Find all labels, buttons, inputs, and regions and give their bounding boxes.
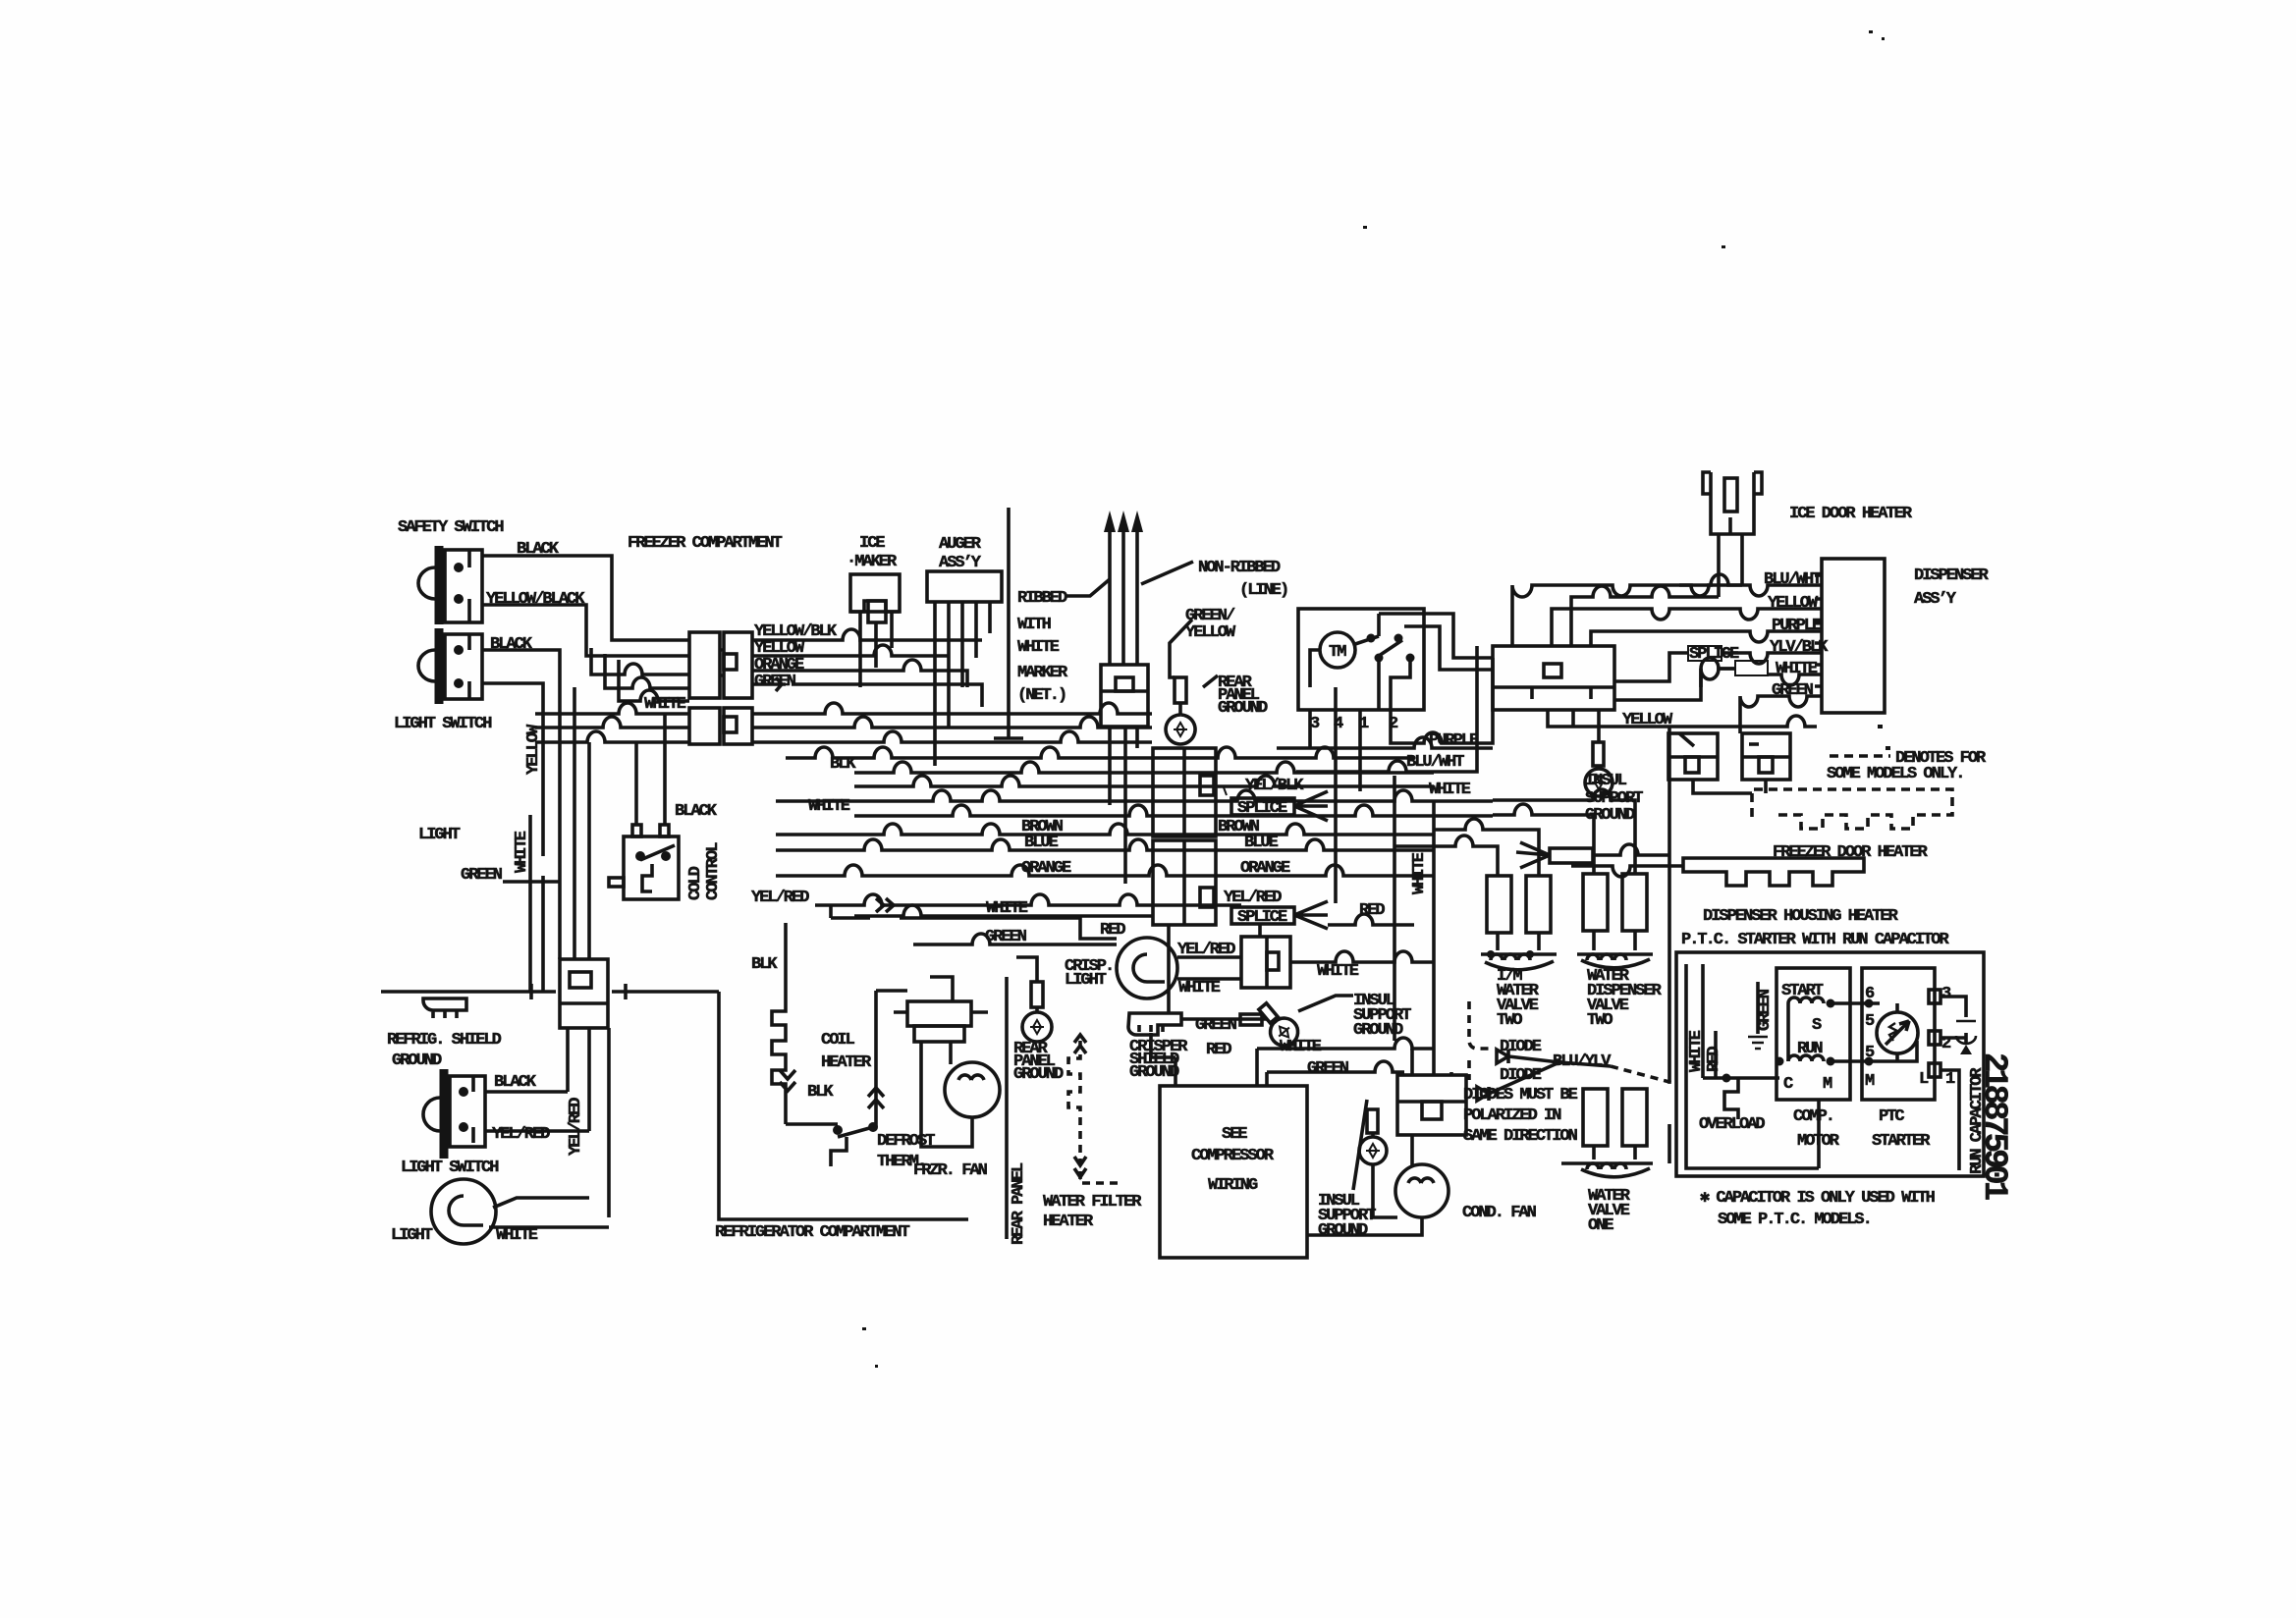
svg-text:BLACK: BLACK <box>494 1073 537 1092</box>
wire <box>1622 874 1647 931</box>
svg-text:WIRING: WIRING <box>1208 1176 1258 1195</box>
refrigerator compartment boundary <box>719 992 968 1219</box>
wire <box>1393 776 1396 1041</box>
wire <box>459 1087 468 1097</box>
svg-text:SPLICE: SPLICE <box>1237 799 1287 818</box>
svg-text:TM: TM <box>1329 643 1346 662</box>
refrig shield ground connector <box>423 998 466 1018</box>
wire RED y956 <box>1080 924 1117 939</box>
text labels left <box>387 518 910 1245</box>
svg-text:DIODE: DIODE <box>1500 1066 1542 1085</box>
wire <box>640 845 675 860</box>
wire RED compressor <box>1151 1033 1175 1086</box>
wire <box>831 1137 847 1166</box>
svg-text:DISPENSER HOUSING HEATER: DISPENSER HOUSING HEATER <box>1703 907 1899 926</box>
wire <box>1788 1055 1824 1061</box>
wire <box>1497 1050 1508 1063</box>
wire <box>874 991 878 1127</box>
wire <box>454 645 464 655</box>
svg-text:WATER FILTER: WATER FILTER <box>1043 1193 1142 1212</box>
wire <box>1493 685 1614 689</box>
wire <box>1577 1161 1653 1165</box>
svg-text:GREEN: GREEN <box>1772 681 1814 700</box>
wire RED right y942 <box>1328 914 1414 925</box>
wire <box>1964 1033 1968 1043</box>
svg-text:COIL: COIL <box>821 1031 855 1050</box>
svg-text:SOME MODELS ONLY.: SOME MODELS ONLY. <box>1827 765 1963 783</box>
wire WHITE crisp <box>1177 977 1241 981</box>
wire <box>1375 654 1384 663</box>
wire WHITE right of crisp connector <box>1290 951 1434 962</box>
wire <box>949 1042 953 1064</box>
freezer connector upper <box>689 632 752 698</box>
svg-text:COMPRESSOR: COMPRESSOR <box>1191 1147 1275 1165</box>
wire <box>786 1124 873 1137</box>
wire WHITE bus y727 <box>535 703 1152 714</box>
wire <box>1594 931 1635 950</box>
svg-text:WHITE: WHITE <box>1776 660 1818 678</box>
wire <box>1373 1164 1397 1217</box>
wire <box>1485 961 1554 970</box>
wire <box>1487 950 1495 958</box>
wire <box>1353 1100 1367 1190</box>
svg-text:P.T.C. STARTER WITH RUN CAPACI: P.T.C. STARTER WITH RUN CAPACITOR <box>1681 931 1949 949</box>
auger assy <box>927 571 1002 602</box>
wire <box>1728 517 1732 534</box>
svg-text:YEL/RED: YEL/RED <box>567 1098 585 1156</box>
wire <box>1336 660 1379 710</box>
svg-text:TWO: TWO <box>1587 1011 1613 1030</box>
dashes denotes <box>1830 754 1890 758</box>
wire <box>1726 1076 1779 1080</box>
wire <box>423 1098 440 1131</box>
water filter heater (dashed) <box>1068 1041 1080 1163</box>
wire <box>612 990 719 994</box>
wire <box>1395 1164 1449 1217</box>
svg-text:BLACK: BLACK <box>675 802 718 821</box>
wire <box>445 634 482 699</box>
wire <box>1241 937 1290 988</box>
wire <box>1587 954 1626 960</box>
wire <box>1371 1133 1375 1137</box>
timer pin wires <box>1310 658 1493 903</box>
svg-text:WHITE: WHITE <box>808 797 850 816</box>
wire <box>607 1028 611 1217</box>
wire <box>1487 876 1511 933</box>
wire <box>1298 609 1424 710</box>
svg-text:GROUND: GROUND <box>1013 1065 1064 1084</box>
wire BLACK from light switch <box>482 650 560 720</box>
wire <box>1597 710 1601 742</box>
wire <box>1491 954 1530 960</box>
rear panel ground (lower) <box>1016 957 1052 1042</box>
svg-text:WHITE: WHITE <box>986 899 1028 918</box>
wire <box>1412 1049 1451 1075</box>
svg-text:HEATER: HEATER <box>821 1053 872 1072</box>
svg-text:BLACK: BLACK <box>517 540 560 559</box>
wire <box>945 1062 1000 1117</box>
wire green left <box>503 720 560 959</box>
wire <box>1941 997 1966 1017</box>
svg-text:COLD: COLD <box>686 866 705 900</box>
wire bus y787 <box>854 762 1434 773</box>
staircase wires into connector <box>591 648 689 674</box>
group <box>1245 505 2012 1229</box>
svg-text:GREEN: GREEN <box>1195 1016 1237 1035</box>
wire <box>724 654 737 670</box>
wire <box>1550 848 1593 863</box>
wire <box>720 650 724 675</box>
wire <box>1587 1163 1626 1169</box>
svg-text:RIBBED: RIBBED <box>1017 589 1067 608</box>
wire <box>1128 1013 1181 1035</box>
wire <box>1749 742 1759 746</box>
svg-text:DIODES MUST BE: DIODES MUST BE <box>1463 1086 1578 1105</box>
wire <box>914 1026 964 1042</box>
wire YELLOW <box>752 645 948 656</box>
wire <box>529 984 533 999</box>
svg-text:REFRIGERATOR COMPARTMENT: REFRIGERATOR COMPARTMENT <box>715 1223 910 1242</box>
wire <box>1703 1076 1726 1080</box>
water dispenser valve two <box>1577 874 1653 968</box>
wire <box>1583 874 1608 931</box>
wire <box>1877 1012 1918 1053</box>
wire <box>1526 950 1534 958</box>
wire <box>1929 1031 1941 1045</box>
wire white vertical left <box>528 815 532 992</box>
wire <box>1363 226 1367 229</box>
wire <box>1080 1171 1120 1183</box>
wire <box>1788 998 1824 1003</box>
wire bus y801 <box>854 776 1434 786</box>
wire <box>1178 703 1182 715</box>
wire <box>1167 925 1171 1013</box>
plug prongs <box>1104 511 1143 665</box>
wire <box>454 678 464 688</box>
freezer door heater comb <box>1693 780 1952 829</box>
svg-text:WHITE: WHITE <box>1687 1030 1706 1072</box>
wire <box>635 851 645 861</box>
crisper shield ground bracket <box>1128 996 1353 1052</box>
wire <box>624 836 679 899</box>
wire <box>1862 968 1935 1100</box>
wire <box>1068 1041 1080 1163</box>
wire <box>1469 1001 1493 1049</box>
svg-text:ASS’Y: ASS’Y <box>939 554 982 572</box>
wire <box>1182 748 1186 925</box>
svg-text:AUGER: AUGER <box>939 535 982 554</box>
wire <box>1714 1031 1718 1078</box>
PTC outer box <box>1676 952 1984 1176</box>
wire <box>1397 1075 1466 1135</box>
wire <box>921 1042 972 1147</box>
ptc starter box <box>1862 968 1941 1100</box>
svg-text:ICE: ICE <box>859 534 885 553</box>
wire <box>1614 658 1735 700</box>
svg-text:ORANGE: ORANGE <box>1240 859 1290 878</box>
wire <box>1031 982 1043 1007</box>
svg-text:WHITE: WHITE <box>513 831 531 873</box>
wire <box>1035 1007 1039 1013</box>
wire <box>1074 1035 1086 1053</box>
wire <box>1777 968 1850 1100</box>
wire <box>1688 646 1722 661</box>
wire <box>1166 715 1195 744</box>
I/M water valve <box>1481 876 1557 970</box>
svg-text:YEL/RED: YEL/RED <box>751 889 809 907</box>
wire <box>1815 575 1822 686</box>
wire <box>1889 1023 1897 1041</box>
wire <box>1679 733 1694 746</box>
coil heater <box>772 923 795 1124</box>
wire WHITE over compressor <box>1257 1038 1434 1049</box>
svg-text:PURPLE: PURPLE <box>1772 617 1822 635</box>
wire WHITE from light <box>493 1198 589 1208</box>
wire <box>435 628 444 704</box>
wire <box>1592 776 1606 789</box>
wire <box>1748 1037 1768 1049</box>
wire <box>868 601 886 622</box>
wire <box>1776 1057 1784 1066</box>
wire <box>1594 1146 1635 1160</box>
wire <box>1255 1049 1259 1086</box>
safety switch <box>418 546 482 624</box>
wires ice door heater down <box>1719 562 1742 597</box>
svg-text:ORANGE: ORANGE <box>1021 859 1071 878</box>
wire <box>605 654 689 688</box>
svg-text:LIGHT: LIGHT <box>418 826 461 844</box>
wire GREEN with arrow <box>752 677 786 691</box>
capacitor <box>1941 997 1976 1054</box>
wire <box>1742 733 1790 780</box>
wire bus y741 <box>535 717 1152 728</box>
tall line (marker) <box>994 508 1023 738</box>
wire <box>560 1001 608 1005</box>
wire <box>471 1076 475 1143</box>
svg-text:FRZR. FAN: FRZR. FAN <box>913 1161 988 1180</box>
svg-text:✱ CAPACITOR IS ONLY USED WITH: ✱ CAPACITOR IS ONLY USED WITH <box>1700 1189 1936 1208</box>
svg-text:YELLOW: YELLOW <box>1185 623 1236 642</box>
wire <box>467 550 471 622</box>
wire PURPLE dispenser <box>1591 631 1822 646</box>
svg-text:FREEZER COMPARTMENT: FREEZER COMPARTMENT <box>628 534 783 553</box>
ice maker wires down <box>860 622 892 687</box>
auger wires down <box>935 602 990 766</box>
wire <box>1467 1060 1471 1080</box>
wire <box>1614 653 1688 681</box>
wire <box>1307 1217 1422 1235</box>
wire <box>1258 924 1262 937</box>
wire <box>1121 530 1125 571</box>
wire <box>1394 1039 1397 1043</box>
wire <box>1404 626 1493 670</box>
wire <box>1742 755 1790 759</box>
wire <box>1622 1089 1647 1146</box>
wire <box>1493 646 1614 710</box>
wire YELLOW from light switch down <box>482 683 543 992</box>
dispenser assy box <box>1815 559 1885 713</box>
non-ribbed pointer <box>1141 562 1193 584</box>
wire <box>1882 37 1885 40</box>
wire <box>780 1070 795 1091</box>
wire <box>868 1088 884 1108</box>
wire <box>1200 888 1214 907</box>
wire YEL/RED crisp <box>1177 955 1241 959</box>
wire <box>587 742 591 959</box>
svg-text:BLU/WHT: BLU/WHT <box>1764 570 1822 589</box>
wire <box>1827 999 1835 1008</box>
big connector right <box>1493 646 1614 710</box>
wire <box>1735 661 1768 675</box>
wire <box>1294 791 1328 821</box>
svg-text:ONE: ONE <box>1588 1216 1613 1235</box>
wires junction right top <box>1571 586 1719 646</box>
splice upper <box>1224 787 1328 821</box>
wires below connector <box>566 1028 570 1092</box>
refrig shield ground line <box>381 990 556 994</box>
wire <box>1711 472 1754 534</box>
wire <box>1117 938 1177 998</box>
rear panel vertical line <box>1005 977 1009 1239</box>
wire <box>1366 1144 1380 1158</box>
svg-text:YEL/RED: YEL/RED <box>1177 941 1235 959</box>
svg-text:BLUE: BLUE <box>1024 834 1059 852</box>
svg-text:ICE DOOR HEATER: ICE DOOR HEATER <box>1789 505 1913 523</box>
svg-text:LIGHT: LIGHT <box>391 1226 433 1245</box>
wire from cold control pin2 <box>663 714 667 825</box>
wire BLACK from safety switch <box>482 556 689 640</box>
wire <box>431 1179 496 1244</box>
wire <box>1016 957 1037 982</box>
wire BLU/WHT dispenser <box>1512 585 1822 646</box>
wire <box>624 984 628 999</box>
svg-text:LIGHT SWITCH: LIGHT SWITCH <box>401 1159 499 1177</box>
wire <box>1153 840 1216 925</box>
wire <box>1886 746 1890 750</box>
svg-text:GROUND: GROUND <box>1129 1063 1179 1082</box>
svg-text:POLARIZED IN: POLARIZED IN <box>1463 1106 1561 1125</box>
svg-text:GREEN: GREEN <box>985 928 1027 946</box>
svg-text:COMP.: COMP. <box>1793 1107 1833 1126</box>
svg-text:WHITE: WHITE <box>1017 638 1060 657</box>
wire <box>1611 1066 1669 1089</box>
wire <box>1865 999 1874 1008</box>
wire <box>1929 1063 1941 1077</box>
wire <box>1693 780 1766 793</box>
wire <box>907 1001 971 1026</box>
wire <box>1880 1003 1917 1061</box>
group <box>862 30 1890 1368</box>
wires above valves <box>1394 819 1539 876</box>
wire <box>1203 675 1218 687</box>
wire <box>1200 776 1214 795</box>
svg-text:RED: RED <box>1705 1047 1723 1072</box>
wire <box>445 550 482 622</box>
wire <box>1481 952 1557 956</box>
svg-text:WHITE: WHITE <box>1410 852 1429 894</box>
vertical wires to lower connector <box>573 687 576 959</box>
compressor box <box>1160 1086 1307 1258</box>
svg-text:GREEN: GREEN <box>1307 1059 1349 1078</box>
wire <box>1865 1057 1874 1066</box>
wire <box>1298 996 1353 1011</box>
PTC inner left wires <box>1686 964 1819 1168</box>
wire <box>1267 952 1279 970</box>
wire <box>1886 1021 1909 1045</box>
wire <box>1822 559 1885 713</box>
wire <box>689 632 720 698</box>
group <box>772 727 1669 1258</box>
wire bus y831 <box>854 805 1493 816</box>
svg-text:START: START <box>1781 982 1824 1000</box>
cond fan <box>1307 1135 1449 1235</box>
wire <box>418 567 435 599</box>
small connector B <box>1742 733 1790 780</box>
wire <box>1022 1012 1052 1042</box>
svg-text:MARKER: MARKER <box>1017 664 1068 682</box>
svg-text:MOTOR: MOTOR <box>1797 1132 1840 1151</box>
wire <box>454 594 464 604</box>
svg-text:RED: RED <box>1100 921 1125 940</box>
wire BLUE y866 <box>776 839 1434 850</box>
wire <box>1597 766 1601 770</box>
svg-text:YLV/BLK: YLV/BLK <box>1770 638 1829 657</box>
wire <box>435 546 444 624</box>
svg-text:GROUND: GROUND <box>1353 1021 1403 1040</box>
wire <box>875 1365 878 1368</box>
wire <box>1683 858 1864 886</box>
wire <box>1668 733 1718 780</box>
svg-text:RED: RED <box>1206 1041 1231 1059</box>
wire <box>1394 634 1403 643</box>
wire <box>1581 1168 1650 1177</box>
wire <box>850 574 900 612</box>
wire <box>1719 534 1742 562</box>
wire <box>1960 1045 1972 1054</box>
wire GREEN over compressor <box>1267 1061 1404 1086</box>
wire <box>1831 1059 1880 1063</box>
wires right valves verticals <box>1561 1124 1669 1163</box>
svg-text:WHITE: WHITE <box>1429 781 1471 799</box>
wire <box>1294 901 1328 929</box>
wire <box>1786 1003 1790 1061</box>
wire YELLOW/BLACK from safety switch <box>482 605 689 656</box>
dispenser housing heater comb <box>1571 858 1864 886</box>
wire <box>1367 634 1376 643</box>
wire <box>1422 1102 1442 1119</box>
ice maker <box>850 574 900 622</box>
svg-text:STARTER: STARTER <box>1872 1132 1931 1151</box>
overload zigzag <box>1724 1078 1738 1119</box>
wire <box>1406 654 1415 663</box>
svg-text:COND. FAN: COND. FAN <box>1462 1204 1537 1222</box>
wire <box>418 650 435 681</box>
green ground in PTC <box>1748 982 1768 1049</box>
group <box>751 955 1663 1245</box>
wire <box>1703 472 1762 494</box>
svg-text:WITH: WITH <box>1017 616 1052 634</box>
svg-text:ASS’Y: ASS’Y <box>1914 590 1957 609</box>
wire <box>1878 725 1883 728</box>
svg-text:GREEN: GREEN <box>1756 989 1775 1031</box>
wire <box>1489 1062 1611 1094</box>
wire <box>1074 1157 1086 1177</box>
group <box>1379 472 1984 1176</box>
group <box>381 546 968 1244</box>
wire <box>1133 954 1165 982</box>
wires down to cond fan area <box>1432 801 1436 1075</box>
svg-text:YEL/RED: YEL/RED <box>1224 889 1282 907</box>
